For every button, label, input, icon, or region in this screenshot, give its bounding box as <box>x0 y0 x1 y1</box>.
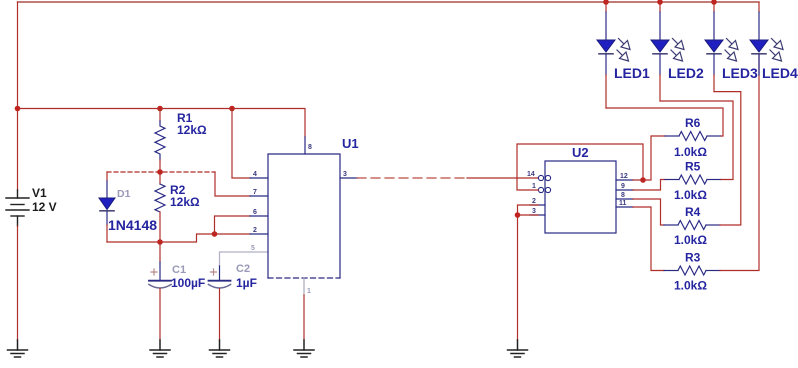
svg-text:1.0kΩ: 1.0kΩ <box>674 188 707 202</box>
capacitor C1 <box>149 242 171 340</box>
U1 pin 7 lead <box>250 195 268 197</box>
svg-text:4: 4 <box>253 171 257 178</box>
resistor R5 <box>665 175 721 184</box>
resistor R1 <box>155 109 165 173</box>
wire pin4 riser <box>232 109 250 179</box>
svg-text:12: 12 <box>620 173 628 180</box>
svg-text:1.0kΩ: 1.0kΩ <box>674 279 707 293</box>
svg-text:14: 14 <box>527 171 535 178</box>
svg-text:11: 11 <box>619 200 627 207</box>
resistor R2 <box>155 172 165 242</box>
svg-text:8: 8 <box>308 144 312 151</box>
wire rail2 VCC branch y=108 <box>18 109 306 138</box>
node junction pin12 net <box>640 177 646 183</box>
wire battery to ground <box>17 226 19 340</box>
U2 pin 3 lead <box>530 214 545 216</box>
LED1 <box>597 2 630 108</box>
U2 pin 11 lead <box>616 206 633 208</box>
svg-text:R3: R3 <box>685 251 701 265</box>
svg-text:R6: R6 <box>685 116 701 130</box>
LED3 <box>705 2 738 92</box>
svg-text:1: 1 <box>532 183 536 190</box>
svg-text:U2: U2 <box>572 145 589 160</box>
svg-text:LED1: LED1 <box>614 65 650 81</box>
svg-text:LED4: LED4 <box>762 65 798 81</box>
svg-text:7: 7 <box>253 189 257 196</box>
capacitor C2 <box>209 266 231 340</box>
svg-text:D1: D1 <box>117 188 131 200</box>
ground U2 <box>508 340 528 357</box>
node junction C1 top <box>157 239 163 245</box>
wire to U1 pin7 <box>215 172 250 196</box>
node junction LED1 rail <box>603 0 609 5</box>
svg-text:12kΩ: 12kΩ <box>177 123 207 137</box>
wire U1.3 to U2.14 (selected, dashed) <box>357 177 467 179</box>
wire U1 pin5 to C2 (gray net) <box>220 252 269 266</box>
U2 pin 2 lead <box>530 204 545 206</box>
svg-text:3: 3 <box>343 171 347 178</box>
svg-text:9: 9 <box>621 183 625 190</box>
ground battery <box>8 340 28 357</box>
node junction R2 top <box>157 169 163 175</box>
LED2 <box>651 2 684 101</box>
node junction pin6 branch <box>212 231 218 237</box>
wire QC net pin8 to R4 <box>633 199 664 225</box>
svg-text:LED2: LED2 <box>668 65 704 81</box>
wire top power rail <box>18 1 760 3</box>
svg-text:V1: V1 <box>32 186 47 200</box>
wire R3 to LED4 <box>720 54 759 271</box>
U2 pin 12 lead <box>616 179 633 181</box>
svg-text:100µF: 100µF <box>171 276 205 290</box>
U1 pin 2 lead <box>250 233 268 235</box>
U1 pin 4 lead <box>250 177 268 179</box>
svg-text:1µF: 1µF <box>236 276 257 290</box>
wire to U1 pin6 <box>215 216 251 234</box>
svg-text:8: 8 <box>621 192 625 199</box>
svg-text:1.0kΩ: 1.0kΩ <box>674 145 707 159</box>
ground C2 <box>210 340 230 357</box>
svg-text:C1: C1 <box>172 264 186 276</box>
node junction rail2-left <box>15 106 21 112</box>
svg-text:1N4148: 1N4148 <box>108 217 157 233</box>
wire U2 pin2 reset <box>518 205 539 215</box>
node junction LED3 rail <box>711 0 717 5</box>
node junction reset net <box>515 212 521 218</box>
svg-text:5: 5 <box>251 245 255 252</box>
svg-text:C2: C2 <box>236 263 250 275</box>
wire U2 pin1 feedback loop from pin12 <box>517 144 643 190</box>
svg-text:2: 2 <box>532 198 536 205</box>
svg-text:1: 1 <box>307 288 311 295</box>
resistor R6 <box>665 132 721 141</box>
svg-text:R5: R5 <box>685 160 701 174</box>
wire into U2.14 <box>467 177 539 179</box>
LED4 <box>750 2 783 75</box>
U2 pin 1 (clock B) <box>538 187 550 192</box>
U2 pin 14 (clock A) <box>538 175 550 180</box>
svg-text:6: 6 <box>253 209 257 216</box>
wire dashed node D1-R2 top <box>107 171 215 173</box>
wire QB net pin9 to R5 <box>633 180 665 191</box>
wire U1 pin1 to ground <box>303 295 305 340</box>
resistor R3 <box>664 266 720 275</box>
wire bottom node y=242 <box>107 234 250 242</box>
ground C1 <box>150 340 170 357</box>
svg-text:R4: R4 <box>685 205 701 219</box>
U1 pin 1 lead <box>303 278 305 295</box>
IC U2 box <box>545 161 616 233</box>
wire QD net pin11 to R3 <box>633 207 664 271</box>
svg-text:2: 2 <box>253 227 257 234</box>
svg-text:12kΩ: 12kΩ <box>170 195 200 209</box>
wire R5 to LED2 <box>660 101 733 180</box>
wire R4 to LED3 <box>714 92 741 225</box>
U2 pin 8 lead <box>616 198 633 200</box>
U1 pin 3 lead <box>340 177 357 179</box>
wire U2 pin3 reset to ground <box>518 215 539 340</box>
ground U1 <box>294 340 314 357</box>
svg-text:U1: U1 <box>342 136 359 151</box>
svg-text:LED3: LED3 <box>722 65 758 81</box>
battery V1 <box>6 190 29 226</box>
wire left rail top segment <box>17 2 19 190</box>
svg-text:3: 3 <box>532 208 536 215</box>
wire QA net pin12 to R6 <box>633 136 665 180</box>
U1 pin 8 lead <box>304 137 306 154</box>
svg-text:12 V: 12 V <box>32 200 57 214</box>
svg-text:1.0kΩ: 1.0kΩ <box>674 233 707 247</box>
resistor R4 <box>664 221 720 230</box>
node junction R1 top <box>157 106 163 112</box>
node junction LED2 rail <box>657 0 663 5</box>
node junction pin4 riser <box>229 106 235 112</box>
U1 pin 6 lead <box>250 215 268 217</box>
U2 pin 9 lead <box>616 189 633 191</box>
op-amp/timer U1 box <box>268 154 340 278</box>
diode D1 <box>99 172 115 242</box>
wire R6 to LED1 <box>606 108 723 136</box>
